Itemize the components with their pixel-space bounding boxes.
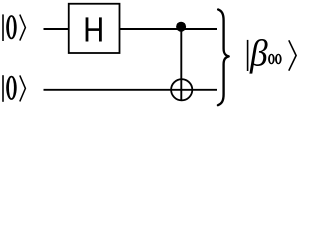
- node q0 ket rangle: [20, 15, 26, 41]
- gate H box: [69, 4, 120, 53]
- gate H letter: [86, 17, 102, 41]
- label subscript zero 1: [268, 54, 275, 65]
- wire cnot vertical: [180, 29, 182, 100]
- label beta ket bar: [247, 40, 249, 71]
- brace: [218, 10, 229, 106]
- node q0 ket bar: [2, 14, 4, 41]
- label beta: [249, 39, 267, 74]
- control dot: [176, 22, 186, 32]
- label rangle: [289, 40, 296, 70]
- node q1 ket zero: [6, 76, 17, 100]
- node q1 ket rangle: [20, 75, 26, 101]
- cnot target circle: [171, 79, 192, 100]
- wire top-right: [120, 28, 218, 30]
- wire top-left: [44, 28, 69, 30]
- label subscript zero 2: [275, 54, 282, 65]
- node q1 ket bar: [2, 75, 4, 102]
- wire bottom: [44, 89, 218, 91]
- node q0 ket zero: [6, 15, 17, 39]
